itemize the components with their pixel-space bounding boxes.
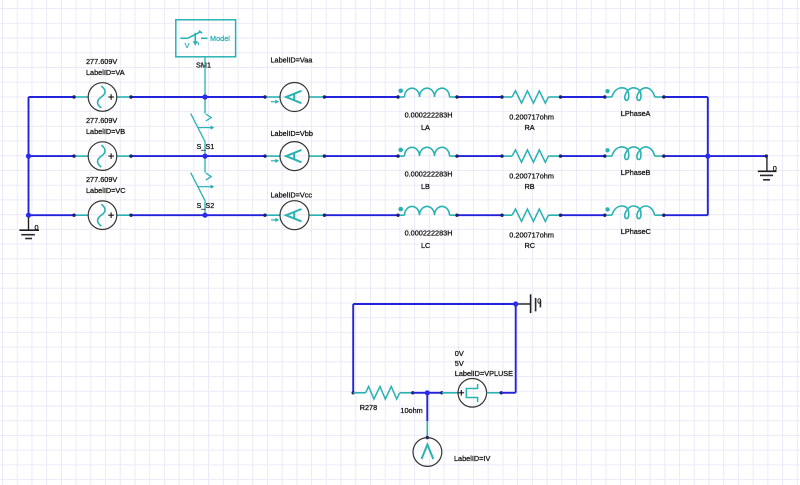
resistor RA xyxy=(500,91,562,103)
label: RB value xyxy=(509,171,554,180)
label: VB value 277.609V xyxy=(86,116,117,125)
ground (net 0, bottom-left) xyxy=(19,215,39,238)
label: VPLUSE 0V xyxy=(455,349,464,358)
label: LB value xyxy=(405,170,453,179)
node: S_S2 bottom junction xyxy=(202,213,207,218)
wire: switch column to ammeter Vaa xyxy=(205,96,265,98)
svg-text:S_S1: S_S1 xyxy=(197,142,215,151)
label: ammeter LabelID=Vbb xyxy=(271,129,313,138)
resistor R278 xyxy=(352,387,415,400)
svg-text:0V: 0V xyxy=(455,349,464,358)
wire: inductor LPhaseC to right bus xyxy=(664,214,708,216)
label: LPhaseB name xyxy=(621,168,651,177)
label: LabelID=IV xyxy=(454,454,490,463)
label: VPLUSE 5V xyxy=(455,359,464,368)
current source IV xyxy=(413,421,442,466)
svg-text:0: 0 xyxy=(537,297,541,306)
label: RB name xyxy=(525,182,535,191)
wire: right bus to ground xyxy=(708,155,767,157)
wire: inductor LA to resistor RA xyxy=(457,96,502,98)
wire: source VB to switch column xyxy=(131,155,205,157)
svg-text:LabelID=Vbb: LabelID=Vbb xyxy=(271,129,313,138)
inductor LPhaseA xyxy=(603,88,665,101)
svg-text:LA: LA xyxy=(421,123,430,132)
svg-text:LB: LB xyxy=(421,182,430,191)
voltage source VPLUSE xyxy=(440,379,503,408)
label: LPhaseC name xyxy=(621,227,651,236)
wire: SM1 box to row A xyxy=(204,57,206,97)
svg-text:SM1: SM1 xyxy=(196,60,211,69)
wire: inductor LC to resistor RC xyxy=(457,214,502,216)
node: right bus junction xyxy=(705,154,710,159)
svg-text:R278: R278 xyxy=(360,403,377,412)
wire: ammeter Vcc to inductor LC xyxy=(324,214,398,216)
svg-text:0.200717ohm: 0.200717ohm xyxy=(509,112,554,121)
label: VC LabelID xyxy=(86,186,126,195)
ammeter Vbb xyxy=(263,142,326,171)
svg-text:0.000222283H: 0.000222283H xyxy=(405,111,453,120)
svg-text:RC: RC xyxy=(525,241,536,250)
wire: switch column to ammeter Vbb xyxy=(205,155,265,157)
node: bus-row3 junction xyxy=(26,213,31,218)
wire: bus to source VC xyxy=(29,214,75,216)
svg-text:0: 0 xyxy=(773,164,777,173)
svg-text:LabelID=VB: LabelID=VB xyxy=(86,127,125,136)
ammeter Vaa xyxy=(263,83,326,112)
ground (net 0, subcircuit) xyxy=(516,294,541,313)
label: ammeter LabelID=Vaa xyxy=(271,56,314,65)
wire: ammeter Vbb to inductor LB xyxy=(324,155,398,157)
svg-text:LabelID=VPLUSE: LabelID=VPLUSE xyxy=(455,369,513,378)
label: VB LabelID xyxy=(86,127,125,136)
svg-text:LabelID=Vaa: LabelID=Vaa xyxy=(271,56,314,65)
wire: source VC to switch column xyxy=(131,214,205,216)
inductor LPhaseC xyxy=(603,206,665,219)
label: LC value xyxy=(405,229,453,238)
wire: subcircuit left vertical xyxy=(352,304,354,393)
wire: left vertical bus xyxy=(28,97,30,215)
wire: source VA to switch column xyxy=(131,96,205,98)
svg-text:LabelID=IV: LabelID=IV xyxy=(454,454,490,463)
label: ground net 0 xyxy=(35,223,39,232)
wire: inductor LPhaseA to right bus xyxy=(664,96,708,98)
label: R278 value 10ohm xyxy=(400,406,422,415)
inductor LA xyxy=(396,88,458,99)
svg-text:RB: RB xyxy=(525,182,535,191)
svg-text:S_S2: S_S2 xyxy=(197,201,215,210)
wire: subcircuit top horizontal xyxy=(353,303,516,305)
node: bus-row2 junction xyxy=(26,154,31,159)
svg-text:LabelID=Vcc: LabelID=Vcc xyxy=(271,191,313,200)
wire: switch column to ammeter Vcc xyxy=(205,214,265,216)
svg-text:277.609V: 277.609V xyxy=(86,57,117,66)
label: VPLUSE LabelID xyxy=(455,369,513,378)
label: right ground net 0 xyxy=(773,164,777,173)
wire: resistor RA to inductor LPhaseA xyxy=(561,96,605,98)
label: VA value 277.609V xyxy=(86,57,117,66)
label: LB name xyxy=(421,182,430,191)
label: ammeter LabelID=Vcc xyxy=(271,191,313,200)
node: S_S1 bottom junction xyxy=(202,154,207,159)
wire: subcircuit right vertical xyxy=(515,304,517,393)
wire: inductor LB to resistor RB xyxy=(457,155,502,157)
inductor LB xyxy=(396,147,458,158)
label: LA value xyxy=(405,111,453,120)
svg-text:277.609V: 277.609V xyxy=(86,116,117,125)
svg-text:10ohm: 10ohm xyxy=(400,406,422,415)
wire: bus to source VA xyxy=(29,96,75,98)
label: R278 xyxy=(360,403,377,412)
wire: ammeter Vaa to inductor LA xyxy=(324,96,398,98)
svg-text:V: V xyxy=(185,41,190,50)
wire: bus to source VB xyxy=(29,155,75,157)
voltage source VC xyxy=(72,201,132,230)
node: subcircuit junction xyxy=(425,390,430,395)
wire: VPLUSE to right vertical xyxy=(501,392,516,394)
svg-text:LPhaseC: LPhaseC xyxy=(621,227,651,236)
wire: inductor LPhaseB to right bus xyxy=(664,155,708,157)
label: VC value 277.609V xyxy=(86,175,117,184)
label: subcircuit ground net 0 xyxy=(537,297,541,306)
svg-text:0.000222283H: 0.000222283H xyxy=(405,170,453,179)
inductor LC xyxy=(396,206,458,217)
wire: resistor RB to inductor LPhaseB xyxy=(561,155,605,157)
wire: R278 to node junction xyxy=(413,392,428,394)
label: LPhaseA name xyxy=(621,109,651,118)
svg-text:RA: RA xyxy=(525,123,535,132)
ammeter Vcc xyxy=(263,201,326,230)
wire: right vertical bus xyxy=(707,97,709,215)
label: RA name xyxy=(525,123,535,132)
svg-text:LC: LC xyxy=(421,241,430,250)
switch S_S1 xyxy=(191,97,215,156)
svg-text:0: 0 xyxy=(35,223,39,232)
label: S_S1 xyxy=(197,142,215,151)
switch S_S2 xyxy=(191,156,215,215)
label: LC name xyxy=(421,241,430,250)
wire: junction to VPLUSE xyxy=(427,392,442,394)
svg-text:LPhaseA: LPhaseA xyxy=(621,109,651,118)
svg-text:5V: 5V xyxy=(455,359,464,368)
voltage source VB xyxy=(72,142,132,171)
ground (net 0, right) xyxy=(758,154,777,179)
svg-text:LabelID=VC: LabelID=VC xyxy=(86,186,126,195)
label: RC value xyxy=(509,230,554,239)
wire: junction to IV source xyxy=(426,393,428,421)
switch model box SM1 xyxy=(176,20,236,57)
resistor RC xyxy=(500,209,562,221)
label: RA value xyxy=(509,112,554,121)
voltage source VA xyxy=(72,83,132,112)
label: S_S2 xyxy=(197,201,215,210)
svg-text:LPhaseB: LPhaseB xyxy=(621,168,651,177)
svg-text:Model: Model xyxy=(210,34,230,43)
label: VA LabelID xyxy=(86,68,125,77)
node: subcircuit top-right junction xyxy=(513,301,518,306)
label: LA name xyxy=(421,123,430,132)
svg-text:0.200717ohm: 0.200717ohm xyxy=(509,171,554,180)
node: SM1 junction row A xyxy=(202,94,207,99)
inductor LPhaseB xyxy=(603,147,665,160)
wire: resistor RC to inductor LPhaseC xyxy=(561,214,605,216)
label: SM1 xyxy=(196,60,211,69)
resistor RB xyxy=(500,150,562,162)
svg-text:LabelID=VA: LabelID=VA xyxy=(86,68,125,77)
svg-text:0.200717ohm: 0.200717ohm xyxy=(509,230,554,239)
svg-text:277.609V: 277.609V xyxy=(86,175,117,184)
label: RC name xyxy=(525,241,536,250)
svg-text:0.000222283H: 0.000222283H xyxy=(405,229,453,238)
